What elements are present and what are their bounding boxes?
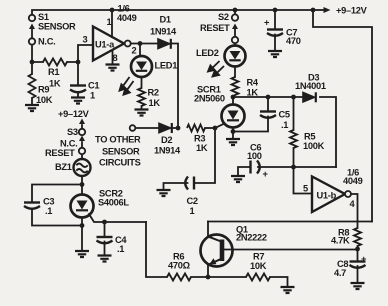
svg-text:1N914: 1N914 <box>150 27 177 37</box>
svg-text:R4: R4 <box>247 78 259 88</box>
svg-text:1: 1 <box>107 17 112 27</box>
svg-text:BZ1: BZ1 <box>55 162 72 172</box>
svg-text:4.7: 4.7 <box>334 268 346 278</box>
svg-text:.1: .1 <box>117 244 124 254</box>
svg-text:RESET: RESET <box>200 23 230 33</box>
svg-text:+9–12V: +9–12V <box>58 109 90 119</box>
svg-text:1N914: 1N914 <box>154 146 181 156</box>
svg-text:C3: C3 <box>43 197 54 207</box>
svg-text:4049: 4049 <box>343 176 363 186</box>
svg-text:C1: C1 <box>88 81 99 91</box>
svg-text:SENSOR: SENSOR <box>102 147 140 157</box>
svg-text:100: 100 <box>247 151 262 161</box>
svg-text:CIRCUITS: CIRCUITS <box>99 158 141 168</box>
svg-text:5: 5 <box>303 184 308 194</box>
svg-text:D2: D2 <box>161 135 172 145</box>
svg-text:S2: S2 <box>218 12 229 22</box>
svg-text:R9: R9 <box>38 85 49 95</box>
svg-text:U1-a: U1-a <box>95 40 115 50</box>
svg-text:S1: S1 <box>38 12 49 22</box>
svg-text:R5: R5 <box>304 132 315 142</box>
svg-text:R2: R2 <box>148 88 159 98</box>
svg-text:U1-b: U1-b <box>317 191 337 201</box>
svg-text:LED2: LED2 <box>196 48 219 58</box>
svg-text:1K: 1K <box>196 143 208 153</box>
svg-text:C5: C5 <box>279 110 290 120</box>
svg-text:470Ω: 470Ω <box>168 261 191 271</box>
svg-text:2N2222: 2N2222 <box>236 233 267 243</box>
svg-text:N.C.: N.C. <box>38 37 55 47</box>
svg-text:1K: 1K <box>49 79 61 89</box>
svg-text:1: 1 <box>190 206 195 216</box>
svg-text:4.7K: 4.7K <box>331 236 350 246</box>
svg-text:2: 2 <box>132 46 137 56</box>
svg-text:R1: R1 <box>48 67 59 77</box>
svg-text:1: 1 <box>90 91 95 101</box>
svg-text:+: + <box>361 254 367 264</box>
svg-text:4049: 4049 <box>117 13 137 23</box>
svg-text:C2: C2 <box>187 196 198 206</box>
svg-text:470: 470 <box>286 36 301 46</box>
svg-text:SENSOR: SENSOR <box>38 22 76 32</box>
svg-text:2N5060: 2N5060 <box>194 94 225 104</box>
svg-text:+: + <box>264 18 270 28</box>
svg-text:.1: .1 <box>45 206 52 216</box>
svg-text:.1: .1 <box>281 120 288 130</box>
svg-text:RESET: RESET <box>45 148 75 158</box>
svg-text:1/6: 1/6 <box>118 4 130 14</box>
svg-text:1K: 1K <box>149 98 161 108</box>
svg-text:S3: S3 <box>67 127 78 137</box>
svg-text:8: 8 <box>113 53 118 63</box>
svg-text:TO OTHER: TO OTHER <box>95 135 141 145</box>
svg-text:10K: 10K <box>250 261 267 271</box>
svg-text:D1: D1 <box>160 15 171 25</box>
svg-text:R7: R7 <box>253 252 264 262</box>
svg-text:3: 3 <box>83 35 88 45</box>
svg-text:+9–12V: +9–12V <box>336 6 368 16</box>
svg-text:R3: R3 <box>194 134 205 144</box>
svg-text:N.C.: N.C. <box>60 139 77 149</box>
svg-text:S4006L: S4006L <box>98 198 129 208</box>
svg-text:1K: 1K <box>247 88 259 98</box>
svg-text:100K: 100K <box>303 141 325 151</box>
svg-text:+: + <box>263 169 269 179</box>
svg-text:10K: 10K <box>36 95 53 105</box>
svg-text:LED1: LED1 <box>155 61 178 71</box>
svg-text:1N4001: 1N4001 <box>295 81 326 91</box>
svg-text:4: 4 <box>350 199 356 209</box>
